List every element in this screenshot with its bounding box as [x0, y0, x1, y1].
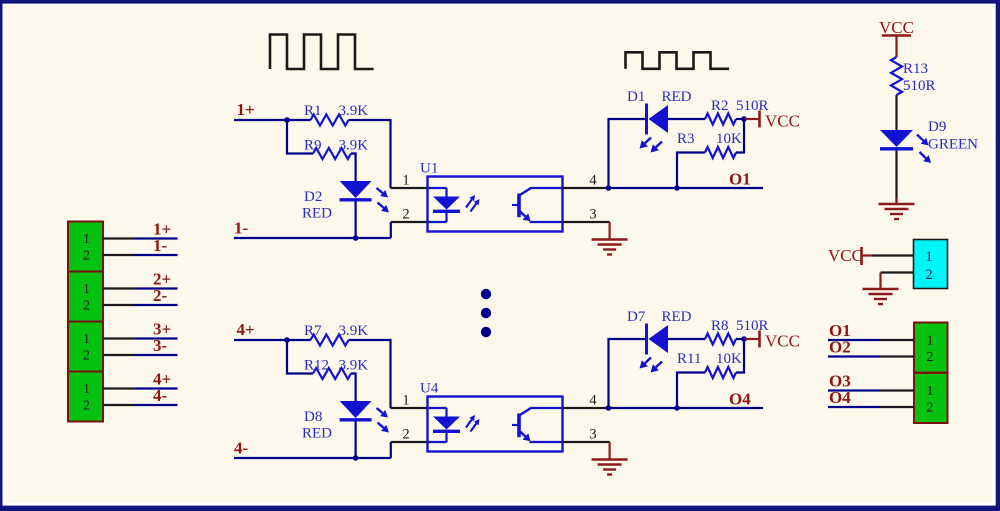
svg-text:U4: U4 [420, 381, 439, 397]
net label O4 [829, 388, 851, 407]
wire net O1 [828, 339, 880, 341]
LED D7 emission arrows [640, 358, 663, 373]
wire D8 cathode down [355, 422, 357, 459]
wire riser to pin 2 [390, 222, 392, 238]
svg-text:1: 1 [83, 232, 90, 247]
wire R1 to pin 1 [349, 120, 391, 188]
svg-text:1: 1 [402, 173, 409, 189]
wire D9 to ground [895, 151, 897, 204]
resistor R11 10K [677, 351, 742, 378]
pin 3 lead [563, 441, 610, 443]
output connector block 2 (pins 1,2) [914, 373, 948, 423]
svg-text:4-: 4- [234, 439, 249, 458]
net label O1 [729, 170, 751, 189]
svg-text:10K: 10K [716, 131, 742, 147]
LED D8 emission arrows [377, 408, 390, 433]
wire net 3- [135, 354, 178, 356]
svg-text:RED: RED [302, 426, 332, 442]
input connector block 1 (pins 1,2) [68, 222, 103, 272]
LED D7 RED [627, 309, 692, 355]
svg-text:510R: 510R [736, 98, 769, 114]
svg-text:D9: D9 [928, 119, 946, 135]
svg-text:O4: O4 [829, 388, 851, 407]
wire net 1- [135, 254, 178, 256]
wire R3 right leg [736, 119, 744, 153]
svg-text:2: 2 [83, 249, 90, 264]
wire VCC to power connector pin 1 [872, 254, 914, 256]
svg-text:4: 4 [589, 393, 597, 409]
svg-text:VCC: VCC [765, 112, 800, 131]
pin 1 lead [391, 407, 428, 409]
wire output rail O1 [609, 187, 764, 189]
svg-text:R3: R3 [677, 131, 695, 147]
wire riser to pin 2 [390, 442, 392, 458]
pin 1 lead of output block 2 [880, 389, 915, 391]
svg-text:R13: R13 [903, 61, 928, 77]
net label O1 [829, 321, 851, 340]
wire net 2+ [135, 287, 178, 289]
pin 2 number [402, 427, 409, 443]
svg-text:R11: R11 [677, 351, 701, 367]
wire net O2 [828, 355, 880, 357]
svg-text:1: 1 [927, 334, 934, 349]
svg-text:2: 2 [927, 401, 934, 416]
input connector block 3 (pins 1,2) [68, 322, 103, 372]
pin 1 lead of input block 1 [103, 237, 135, 239]
svg-text:R1: R1 [304, 103, 322, 119]
wire output rail O4 [609, 407, 764, 409]
svg-text:2: 2 [925, 267, 932, 283]
svg-text:R7: R7 [304, 323, 322, 339]
pin 2 lead of output block 1 [880, 355, 915, 357]
svg-text:3.9K: 3.9K [339, 323, 369, 339]
net label 4+ [153, 370, 171, 389]
wire D7 to R8 [668, 338, 706, 340]
ground below D9 [879, 198, 915, 219]
svg-text:10K: 10K [716, 351, 742, 367]
wire pin 3 to ground [608, 222, 610, 240]
input connector block 4 (pins 1,2) [68, 372, 103, 422]
VCC power port (middle right) [828, 246, 872, 265]
svg-text:1: 1 [927, 384, 934, 399]
net label 4- [153, 386, 168, 405]
wire R12 to LED D8 [351, 374, 356, 402]
LED D2 RED [302, 181, 372, 222]
LED D8 RED [302, 401, 372, 442]
wire net O3 [828, 389, 880, 391]
svg-text:RED: RED [662, 89, 692, 105]
wire R11 left leg [677, 373, 705, 409]
wire to R7 [287, 339, 311, 341]
junction D8 cathode on 4- rail [353, 455, 359, 461]
node junction at 1+ split [284, 117, 290, 123]
net label 1+ [237, 100, 255, 119]
wire R7 to pin 1 [349, 340, 391, 408]
svg-text:VCC: VCC [765, 332, 800, 351]
svg-text:510R: 510R [903, 78, 936, 94]
LED D9 GREEN [880, 119, 978, 153]
VCC power port (top right) [879, 18, 914, 57]
net label 4- [234, 439, 249, 458]
svg-text:3: 3 [589, 427, 596, 443]
wire net 1+ [135, 237, 178, 239]
svg-text:1: 1 [83, 282, 90, 297]
net label 2- [153, 286, 168, 305]
resistor R7 3.9K [304, 323, 368, 346]
net label 3+ [153, 320, 171, 339]
junction VCC node [741, 336, 747, 342]
pin 2 lead of output block 2 [880, 406, 915, 408]
wire net 2- [135, 304, 178, 306]
wire 4- rail [234, 457, 391, 459]
resistor R2 510R [705, 98, 769, 125]
svg-text:D8: D8 [304, 409, 322, 425]
net label O4 [729, 390, 751, 409]
pin 1 lead of output block 1 [880, 339, 915, 341]
LED D1 RED [627, 89, 692, 135]
svg-text:2-: 2- [153, 286, 168, 305]
wire D1 to R2 [668, 118, 706, 120]
wire R8 to VCC node [736, 338, 744, 340]
junction VCC node [741, 116, 747, 122]
wire D2 cathode down [355, 202, 357, 239]
pin 4 number [589, 393, 597, 409]
svg-text:1: 1 [83, 382, 90, 397]
resistor R9 3.9K [304, 138, 368, 160]
ground at pin 3 [592, 460, 628, 475]
svg-text:1: 1 [83, 332, 90, 347]
wire pin4 node up to LED D7 [609, 339, 646, 408]
pin 2 lead of input block 1 [103, 254, 135, 256]
pin 1 lead [391, 187, 428, 189]
net label 1- [153, 236, 168, 255]
svg-text:2: 2 [927, 350, 934, 365]
svg-text:2: 2 [402, 427, 409, 443]
output connector block 1 (pins 1,2) [914, 323, 948, 373]
svg-text:O4: O4 [729, 390, 751, 409]
ground at pin 3 [592, 240, 628, 255]
pin 3 lead [563, 221, 610, 223]
resistor R13 510R [891, 57, 936, 95]
svg-text:3.9K: 3.9K [339, 103, 369, 119]
VCC power port [744, 111, 800, 131]
pin 1 number [402, 393, 409, 409]
square wave input symbol (left) [270, 35, 374, 70]
pin 2 number [402, 207, 409, 223]
svg-text:U1: U1 [420, 161, 438, 177]
svg-text:1: 1 [925, 249, 932, 265]
power connector (cyan) pins 1,2 [914, 240, 948, 289]
resistor R12 3.9K [304, 358, 368, 380]
net label 4+ [237, 320, 255, 339]
wire net 4+ [135, 387, 178, 389]
wire net 4- [135, 404, 178, 406]
optocoupler U1 [420, 161, 563, 232]
optocoupler U4 [420, 381, 563, 452]
junction pin 4 node [606, 185, 612, 191]
wire R3 left leg [677, 153, 705, 189]
pin 2 lead of input block 2 [103, 304, 135, 306]
svg-text:2: 2 [83, 349, 90, 364]
pin 2 lead of input block 4 [103, 404, 135, 406]
wire to R1 [287, 119, 311, 121]
net label 1+ [153, 220, 171, 239]
svg-text:D7: D7 [627, 309, 646, 325]
pin 2 lead [391, 441, 428, 443]
pin 1 lead of input block 3 [103, 337, 135, 339]
svg-text:R12: R12 [304, 358, 329, 374]
node junction at 4+ split [284, 337, 290, 343]
LED D9 emission arrows [917, 135, 931, 164]
pin 1 lead of input block 2 [103, 287, 135, 289]
net label 1- [234, 219, 249, 238]
pin 1 number [402, 173, 409, 189]
net label 3- [153, 336, 168, 355]
svg-text:1: 1 [402, 393, 409, 409]
svg-text:O2: O2 [829, 338, 851, 357]
junction pin 4 node [606, 405, 612, 411]
wire 1- rail [234, 237, 391, 239]
svg-text:VCC: VCC [879, 18, 914, 37]
VCC power port [744, 331, 800, 351]
net label O2 [829, 338, 851, 357]
wire pin 3 to ground [608, 442, 610, 460]
wire R11 right leg [736, 339, 744, 373]
junction R3 on output rail [674, 185, 680, 191]
svg-text:1-: 1- [153, 236, 168, 255]
wire net O4 [828, 406, 880, 408]
svg-text:D2: D2 [304, 189, 322, 205]
pin 3 number [589, 207, 596, 223]
wire R2 to VCC node [736, 118, 744, 120]
wire 1+ input [234, 119, 287, 121]
svg-text:2: 2 [83, 399, 90, 414]
pin 4 lead [563, 187, 609, 189]
svg-text:R8: R8 [711, 318, 729, 334]
wire pin4 node up to LED D1 [609, 119, 646, 188]
svg-text:1-: 1- [234, 219, 249, 238]
svg-text:2: 2 [83, 299, 90, 314]
svg-text:4+: 4+ [237, 320, 255, 339]
wire branch down to R12 [287, 340, 313, 374]
square wave output symbol (right) [626, 52, 730, 69]
pin 1 lead of input block 4 [103, 387, 135, 389]
svg-text:4: 4 [589, 173, 597, 189]
svg-text:2: 2 [402, 207, 409, 223]
net label O3 [829, 372, 851, 391]
svg-text:D1: D1 [627, 89, 645, 105]
input connector block 2 (pins 1,2) [68, 272, 103, 322]
svg-text:510R: 510R [736, 318, 769, 334]
resistor R8 510R [705, 318, 769, 345]
wire net 3+ [135, 337, 178, 339]
net label 2+ [153, 270, 171, 289]
svg-text:3.9K: 3.9K [339, 138, 369, 154]
svg-text:3-: 3- [153, 336, 168, 355]
LED D1 emission arrows [640, 138, 663, 153]
svg-text:4-: 4- [153, 386, 168, 405]
resistor R3 10K [677, 131, 742, 158]
svg-text:R2: R2 [711, 98, 729, 114]
svg-text:3.9K: 3.9K [339, 358, 369, 374]
ellipsis dots (channels 2..3 omitted) [481, 289, 491, 337]
junction D2 cathode on 1- rail [353, 235, 359, 241]
svg-text:RED: RED [302, 206, 332, 222]
svg-text:GREEN: GREEN [928, 137, 978, 153]
svg-text:VCC: VCC [828, 246, 863, 265]
resistor R1 3.9K [304, 103, 368, 126]
wire R9 to LED D2 [351, 154, 356, 182]
junction R11 on output rail [674, 405, 680, 411]
pin 2 lead [391, 221, 428, 223]
svg-text:3: 3 [589, 207, 596, 223]
LED D2 emission arrows [377, 188, 390, 213]
pin 4 lead [563, 407, 609, 409]
svg-text:O1: O1 [729, 170, 751, 189]
pin 2 lead of input block 3 [103, 354, 135, 356]
wire power connector pin 2 to ground [881, 273, 914, 290]
svg-text:RED: RED [662, 309, 692, 325]
wire R13 to D9 [895, 95, 897, 130]
wire 4+ input [234, 339, 287, 341]
wire branch down to R9 [287, 120, 313, 154]
pin 3 number [589, 427, 596, 443]
svg-text:R9: R9 [304, 138, 322, 154]
pin 4 number [589, 173, 597, 189]
ground at power connector [863, 289, 899, 304]
svg-text:1+: 1+ [237, 100, 255, 119]
